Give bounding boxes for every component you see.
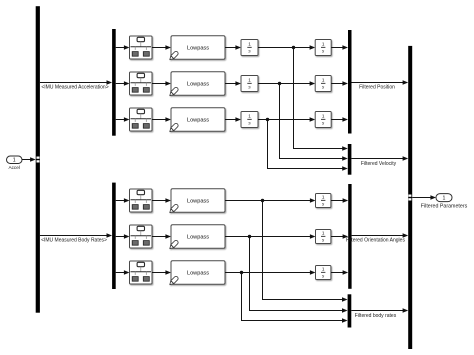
inport 1 (Accel) xyxy=(7,156,23,164)
subsystem preview block S2 xyxy=(130,72,153,95)
subsystem preview block S4 xyxy=(130,189,153,212)
integrator I5 (1/s) xyxy=(315,76,331,92)
svg-text:<IMU Measured Body Rates>: <IMU Measured Body Rates> xyxy=(41,237,107,243)
junction on body-rate tap 3 xyxy=(240,271,243,274)
bus connection marker xyxy=(37,157,40,159)
svg-text:Filtered Velocity: Filtered Velocity xyxy=(361,161,397,167)
wire body-rate tap 2 vertical xyxy=(249,237,251,311)
wire velocity tap 2 vertical xyxy=(279,84,281,159)
wire Filtered Orientation Angles xyxy=(352,235,404,237)
svg-text:1: 1 xyxy=(248,78,251,83)
bus creator bar (velocity) xyxy=(348,144,352,175)
wire <IMU Measured Body Rates> xyxy=(40,235,108,237)
bus selector bar xyxy=(36,6,40,313)
subsystem preview block S6 xyxy=(130,261,153,284)
bus creator bar (body rates) xyxy=(348,294,352,327)
integrator I3 (1/s) xyxy=(241,112,258,128)
integrator I9 (1/s) xyxy=(316,266,331,280)
svg-text:Filtered Orientation Angles: Filtered Orientation Angles xyxy=(346,238,405,244)
lowpass filter block Lowpass5 xyxy=(168,225,225,250)
wire integrator I8 to orientation bus xyxy=(331,236,344,238)
wire lowpass 3 to integrator I3 xyxy=(225,119,236,121)
svg-text:Lowpass: Lowpass xyxy=(187,270,209,276)
wire lowpass 1 to integrator I1 xyxy=(225,47,236,49)
svg-text:1: 1 xyxy=(248,42,251,47)
outport 1 (Filtered Parameters) xyxy=(436,194,452,202)
wire body-rate tap 1 vertical xyxy=(262,201,264,300)
bus creator bar (filtered parameters) xyxy=(408,46,412,349)
wire subsystem 2 to lowpass 2 xyxy=(152,83,166,85)
svg-text:Filtered body rates: Filtered body rates xyxy=(355,313,397,319)
wire to outport xyxy=(412,197,431,199)
lowpass filter block Lowpass3 xyxy=(168,108,225,133)
wire integrator I3 to integrator I6 xyxy=(258,119,311,121)
lowpass filter block Lowpass2 xyxy=(168,72,225,97)
svg-text:Filtered Parameters: Filtered Parameters xyxy=(421,203,468,209)
subsystem preview block S3 xyxy=(130,108,153,131)
svg-text:Lowpass: Lowpass xyxy=(187,117,209,123)
wire integrator I9 to orientation bus xyxy=(331,272,344,274)
svg-text:Accel: Accel xyxy=(8,165,19,170)
junction on velocity tap 1 xyxy=(292,46,295,49)
wire integrator I7 to orientation bus xyxy=(331,200,344,202)
wire demux to subsystem 1 xyxy=(116,47,125,49)
integrator I2 (1/s) xyxy=(241,76,258,92)
svg-text:Lowpass: Lowpass xyxy=(187,81,209,87)
wire subsystem 3 to lowpass 3 xyxy=(152,119,166,121)
svg-text:Lowpass: Lowpass xyxy=(187,45,209,51)
svg-text:1: 1 xyxy=(322,42,325,47)
svg-text:1: 1 xyxy=(322,195,325,200)
svg-text:<IMU Measured Acceleration>: <IMU Measured Acceleration> xyxy=(41,84,108,90)
svg-text:1: 1 xyxy=(322,267,325,272)
wire body-rate tap 1 horizontal xyxy=(262,299,343,301)
junction on velocity tap 3 xyxy=(266,118,269,121)
wire subsystem 1 to lowpass 1 xyxy=(152,47,166,49)
wire velocity tap 1 vertical xyxy=(293,48,295,149)
wire lowpass 6 to integrator I9 xyxy=(225,272,311,274)
wire demux to subsystem 2 xyxy=(116,83,125,85)
wire demux to subsystem 5 xyxy=(116,236,125,238)
bus creator bar (position) xyxy=(348,30,352,134)
wire lowpass 2 to integrator I2 xyxy=(225,83,236,85)
wire velocity tap 3 vertical xyxy=(267,120,269,169)
svg-text:Lowpass: Lowpass xyxy=(187,234,209,240)
wire integrator I4 to position bus xyxy=(331,47,343,49)
wire Filtered Position xyxy=(352,82,404,84)
wire integrator I2 to integrator I5 xyxy=(258,83,311,85)
wire inport to bus selector xyxy=(22,159,31,161)
wire lowpass 4 to integrator I7 xyxy=(225,200,311,202)
subsystem preview block S5 xyxy=(130,225,153,248)
svg-text:1: 1 xyxy=(322,114,325,119)
wire subsystem 4 to lowpass 4 xyxy=(152,200,166,202)
bus creator bar (orientation angles) xyxy=(348,184,351,289)
wire demux to subsystem 4 xyxy=(116,200,125,202)
wire demux to subsystem 6 xyxy=(116,272,125,274)
junction on body-rate tap 2 xyxy=(248,235,251,238)
wire body-rate tap 3 vertical xyxy=(241,273,243,321)
demux bar (acceleration) xyxy=(112,29,116,136)
wire <IMU Measured Acceleration> xyxy=(40,82,108,84)
wire integrator I1 to integrator I4 xyxy=(258,47,311,49)
wire subsystem 6 to lowpass 6 xyxy=(152,272,166,274)
demux bar (body rates) xyxy=(112,183,116,289)
wire Filtered body rates xyxy=(351,310,403,312)
svg-text:1: 1 xyxy=(13,158,16,164)
junction on body-rate tap 1 xyxy=(261,199,264,202)
svg-text:Filtered Position: Filtered Position xyxy=(359,85,395,91)
bus connection marker xyxy=(408,195,411,197)
lowpass filter block Lowpass6 xyxy=(168,261,225,286)
lowpass filter block Lowpass4 xyxy=(168,189,225,214)
integrator I7 (1/s) xyxy=(316,194,331,208)
wire body-rate tap 2 horizontal xyxy=(249,310,343,312)
svg-text:1: 1 xyxy=(322,231,325,236)
integrator I1 (1/s) xyxy=(241,40,258,56)
svg-text:Lowpass: Lowpass xyxy=(187,198,209,204)
svg-text:1: 1 xyxy=(248,114,251,119)
svg-text:1: 1 xyxy=(322,78,325,83)
wire subsystem 5 to lowpass 5 xyxy=(152,236,166,238)
svg-text:1: 1 xyxy=(443,196,446,202)
junction on velocity tap 2 xyxy=(278,82,281,85)
wire body-rate tap 3 horizontal xyxy=(241,320,343,322)
wire velocity tap 3 horizontal xyxy=(267,168,343,170)
wire velocity tap 2 horizontal xyxy=(279,158,343,160)
wire demux to subsystem 3 xyxy=(116,119,125,121)
subsystem preview block S1 xyxy=(130,36,153,59)
wire integrator I5 to position bus xyxy=(331,83,343,85)
lowpass filter block Lowpass1 xyxy=(168,36,225,61)
integrator I4 (1/s) xyxy=(315,40,331,56)
wire Filtered Velocity xyxy=(351,158,403,160)
wire velocity tap 1 horizontal xyxy=(293,148,343,150)
integrator I6 (1/s) xyxy=(315,112,331,128)
wire integrator I6 to position bus xyxy=(331,119,343,121)
integrator I8 (1/s) xyxy=(316,230,331,244)
wire lowpass 5 to integrator I8 xyxy=(225,236,311,238)
